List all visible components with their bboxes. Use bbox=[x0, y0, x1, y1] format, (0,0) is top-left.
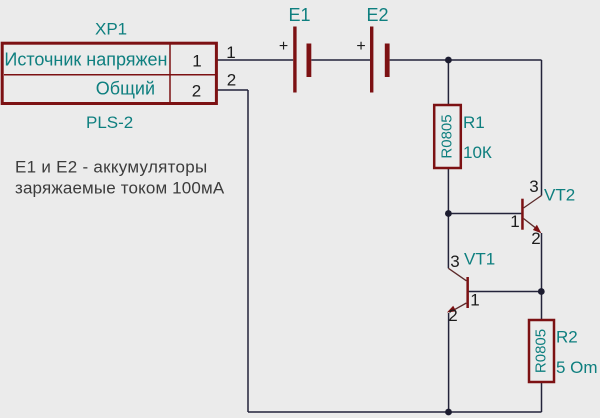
transistor VT1 bbox=[447, 268, 469, 312]
junction node base VT2 bbox=[445, 210, 452, 217]
svg-text:2: 2 bbox=[531, 229, 540, 248]
wire R1 bottom lead bbox=[447, 168, 449, 214]
wire VT1 emitter down bbox=[448, 313, 450, 412]
wire VT2 collector vertical bbox=[541, 60, 543, 196]
svg-text:3: 3 bbox=[450, 252, 459, 271]
svg-text:R2: R2 bbox=[556, 328, 578, 347]
svg-text:+: + bbox=[279, 38, 288, 55]
connector XP1 body bbox=[2, 43, 216, 103]
svg-text:+: + bbox=[356, 38, 365, 55]
wire node down to VT1 collector bbox=[447, 214, 449, 269]
transistor VT2 bbox=[521, 196, 541, 234]
svg-text:Е1 и Е2 - аккумуляторы: Е1 и Е2 - аккумуляторы bbox=[15, 158, 207, 177]
wire R2 top lead bbox=[541, 292, 543, 321]
wire VT1 base to node bbox=[469, 291, 542, 293]
svg-text:Источник напряжен: Источник напряжен bbox=[4, 50, 167, 70]
junction node bottom bbox=[445, 409, 452, 416]
svg-text:E1: E1 bbox=[289, 5, 311, 25]
junction node VT1 base / R2 bbox=[538, 288, 545, 295]
svg-text:Общий: Общий bbox=[96, 79, 155, 99]
battery E1 bbox=[293, 27, 311, 93]
svg-text:1: 1 bbox=[470, 291, 479, 310]
svg-text:2: 2 bbox=[192, 82, 201, 101]
wire VT2 emitter down bbox=[541, 233, 543, 291]
svg-text:PLS-2: PLS-2 bbox=[86, 113, 133, 132]
battery E2 bbox=[370, 27, 390, 93]
svg-text:VT1: VT1 bbox=[464, 250, 495, 269]
svg-text:E2: E2 bbox=[367, 5, 389, 25]
resistor R1 bbox=[434, 105, 461, 168]
wire pin1 to E1 bbox=[217, 59, 293, 61]
svg-text:3: 3 bbox=[529, 177, 538, 196]
wire left vertical bbox=[247, 90, 249, 412]
svg-text:R0805: R0805 bbox=[439, 114, 456, 158]
svg-text:2: 2 bbox=[227, 71, 236, 90]
wire E2 to top-right corner bbox=[390, 59, 542, 61]
wire pin2 stub bbox=[217, 89, 248, 91]
svg-text:1: 1 bbox=[192, 52, 201, 71]
svg-text:1: 1 bbox=[510, 212, 519, 231]
junction node top bbox=[445, 57, 452, 64]
wire R2 bottom lead bbox=[541, 382, 543, 412]
svg-text:заряжаемые током 100мА: заряжаемые током 100мА bbox=[15, 179, 225, 198]
svg-text:R0805: R0805 bbox=[532, 329, 549, 373]
svg-text:XP1: XP1 bbox=[95, 20, 127, 39]
wire E1 to E2 bbox=[311, 59, 370, 61]
svg-text:5 Om: 5 Om bbox=[556, 358, 598, 377]
svg-text:VT2: VT2 bbox=[544, 185, 575, 204]
svg-text:10К: 10К bbox=[463, 143, 492, 162]
resistor R2 bbox=[529, 320, 554, 382]
wire R1 top lead bbox=[447, 60, 449, 105]
wire bottom horizontal bbox=[248, 411, 542, 413]
wire node to VT2 base bbox=[448, 213, 521, 215]
svg-text:R1: R1 bbox=[463, 113, 485, 132]
svg-text:1: 1 bbox=[226, 43, 235, 62]
svg-text:2: 2 bbox=[448, 306, 457, 325]
